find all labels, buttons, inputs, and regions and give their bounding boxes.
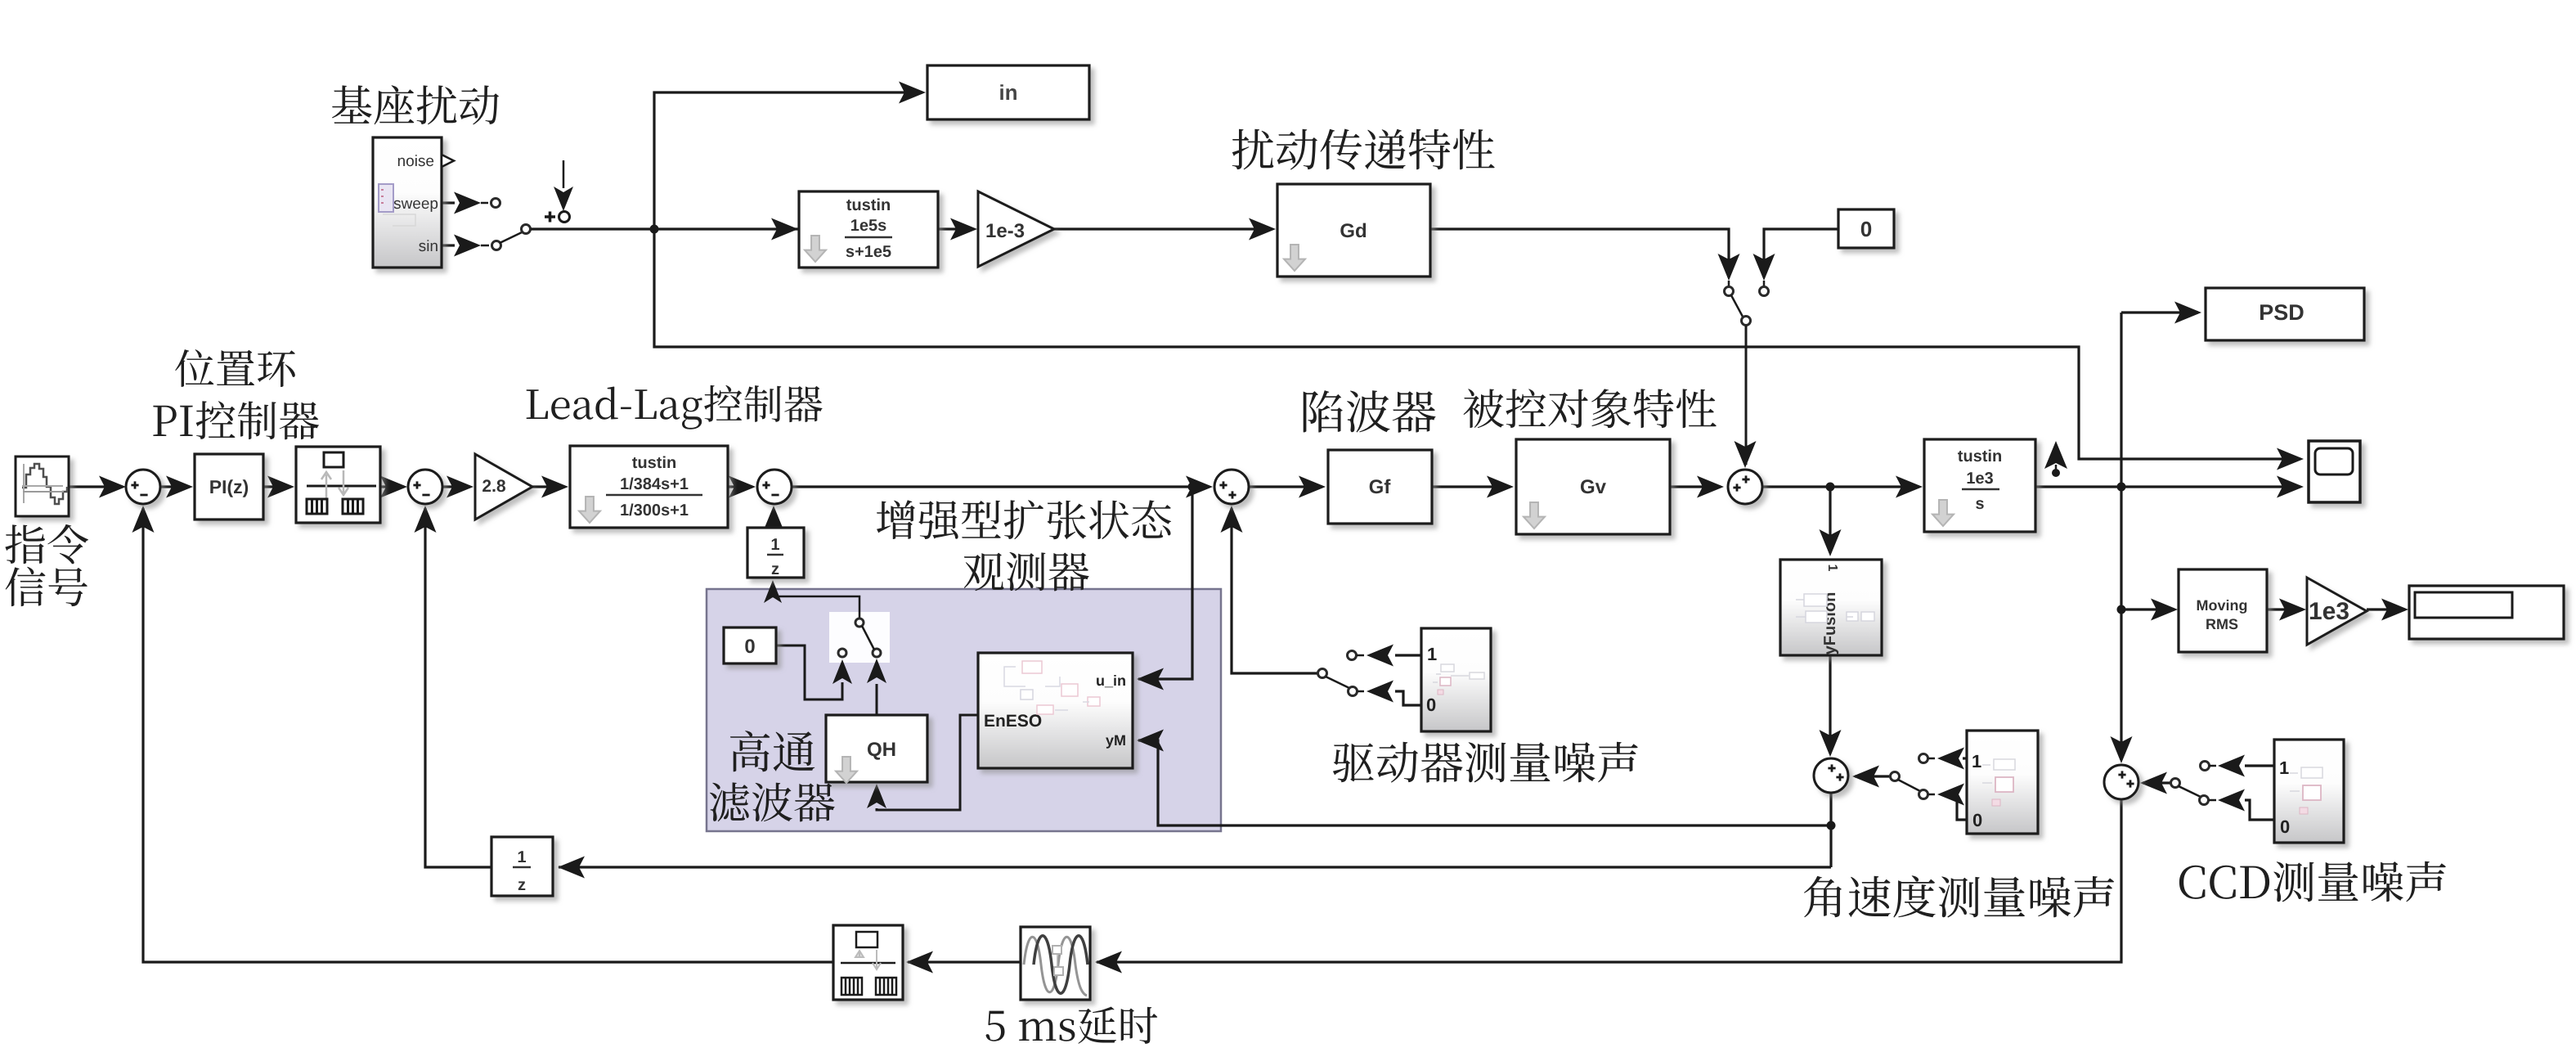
wire rate transition 2 to sum1 bottom: [143, 508, 833, 962]
label Lead-Lag controller: [527, 385, 823, 430]
stub arrow up from output into scope-top line: [2052, 469, 2060, 477]
wire driver noise port 1 to switch: [1395, 654, 1421, 656]
wire sum3 to sum4 with branch node to EnESO u_in: [792, 485, 1209, 488]
gain 2.8: [475, 454, 532, 520]
wire sum6 right input from ang switch: [1855, 775, 1890, 777]
observer switch circles and lever: [855, 618, 864, 627]
wire main top line to tustin 1e5s: [771, 218, 798, 241]
label 5ms delay: [986, 1007, 1158, 1044]
label command signal line1: [5, 524, 88, 564]
Moving RMS block: [2179, 569, 2267, 652]
unit delay 1/z (observer): [747, 528, 804, 578]
wire tustin 1e5s to gain 1e-3: [938, 227, 973, 230]
command signal source block: [16, 457, 69, 516]
in block: [927, 65, 1089, 119]
CCD sum S7: [2104, 765, 2138, 799]
ccd noise switch pole and lever: [2171, 779, 2180, 788]
wire PSD feed horizontal: [2121, 311, 2198, 313]
wire source sin port: [442, 244, 455, 246]
wire sum4 to Gf: [1249, 485, 1322, 488]
wire branch up to in block: [654, 92, 922, 229]
wire Gv to sum5: [1670, 485, 1721, 488]
wire sum6 to unit delay 1/z (bottom left): [559, 866, 1831, 868]
wire Lead-Lag to sum3: [728, 485, 752, 488]
notch filter Gf block: [1328, 450, 1432, 524]
Gd disturbance transfer block: [1277, 184, 1430, 277]
5ms transport delay block: [1021, 927, 1090, 1000]
wire Moving RMS to gain 1e3: [2267, 608, 2303, 610]
label enhanced ESO line1: [877, 500, 1171, 539]
external input port: down arrow, plus, circle: [563, 160, 565, 188]
wire PI(z) to rate transition: [263, 485, 291, 488]
EnESO subsystem block: [978, 653, 1133, 768]
wire ang noise port 1 to switch: [1963, 757, 1967, 759]
display block: [2409, 586, 2564, 639]
rate transition block 1: [296, 447, 380, 523]
label command signal line2: [6, 567, 88, 606]
label plant characteristic: [1464, 389, 1717, 428]
base disturbance source block: [373, 137, 442, 268]
node main top line at x800: [650, 225, 659, 234]
wire long feedback y424 to scope top: [654, 229, 2300, 459]
PI(z) controller block: [195, 454, 263, 520]
wire vertical x2594 down to CCD sum with node to Moving RMS: [2120, 489, 2122, 760]
driver noise switch pole and lever: [1318, 669, 1327, 678]
angular velocity noise source block: [1967, 731, 2038, 834]
wire 1/z (observer) up to sum3 bottom: [773, 509, 775, 528]
gain 1e3 (display): [2307, 578, 2367, 645]
wire gain 1e-3 to Gd: [1054, 227, 1272, 230]
switch patch inside observer: [829, 612, 890, 663]
wire Moving RMS feed: [2121, 608, 2174, 610]
wire CCD sum right input from ccd switch: [2143, 781, 2170, 784]
unit delay 1/z (outer feedback): [491, 837, 553, 896]
tustin 1e5s transfer fn block: [799, 191, 938, 268]
sum S2: [408, 470, 442, 504]
switch lever sin to common: [500, 232, 522, 243]
wire EnESO left port to QH bottom: [877, 715, 978, 810]
wire observer switch top circle to 1/z: [773, 586, 859, 618]
wire sum5 to tustin 1e3/s with node to yFusion: [1763, 485, 1919, 488]
label notch filter: [1304, 390, 1436, 433]
ang noise switch throws: [1919, 754, 1928, 763]
wire main row: source to sum1: [69, 485, 123, 488]
gain 1e-3: [978, 191, 1054, 267]
label position loop line1: [175, 349, 295, 387]
const 0 (observer): [724, 627, 776, 663]
plant Gv block: [1516, 439, 1670, 534]
switch circle sweep throw: [491, 199, 500, 208]
wire yM feedback from sum6 node to EnESO: [1138, 740, 1831, 825]
wire PSD feed vertical x2594: [2120, 313, 2122, 485]
tustin 1e3/s integrator block: [1924, 439, 2035, 532]
wire rate transition to sum2: [378, 485, 404, 488]
wire ccd noise port 1 to switch: [2245, 764, 2274, 767]
wire sum2 to gain 2.8: [442, 485, 470, 488]
label base disturbance: [332, 85, 499, 124]
wire yFusion to sum6: [1829, 655, 1831, 753]
PSD block: [2206, 288, 2364, 340]
wire QH to observer switch right throw: [876, 684, 878, 715]
switch circle sin throw: [492, 241, 501, 250]
label high pass line1: [730, 731, 815, 771]
label angular velocity measurement noise: [1804, 875, 2114, 917]
sum S6 (angular velocity): [1814, 758, 1848, 793]
ccd noise switch throws: [2201, 762, 2210, 771]
wire sum1 to PI(z): [160, 485, 190, 488]
label high pass line2: [710, 782, 835, 821]
sum S3: [757, 470, 792, 504]
switch common circle: [522, 225, 531, 234]
label disturbance transfer characteristic: [1232, 129, 1495, 170]
rate transition block 2: [833, 925, 903, 1000]
wire CCD sum down to 5ms delay row: [1097, 799, 2121, 962]
wire source sweep port: [442, 201, 455, 204]
const 0 (top): [1838, 209, 1894, 248]
wire Gd to disturbance switch left throw: [1430, 229, 1729, 277]
wire tustin 1e3/s to scope bottom input: [2035, 485, 2300, 488]
wire switch common to main top line: [531, 227, 799, 230]
scope block: [2309, 441, 2360, 502]
sum S1: [126, 470, 160, 504]
label enhanced ESO line2: [964, 552, 1089, 591]
wire gain 1e3 to display: [2367, 608, 2405, 610]
wire const 0 to observer switch left throw: [776, 645, 842, 699]
label CCD measurement noise: [2179, 861, 2446, 902]
yFusion subsystem block: [1780, 560, 1882, 655]
wire driver noise port 0 to switch: [1395, 691, 1421, 705]
wire Gf to Gv: [1432, 485, 1510, 488]
label position loop line2: [153, 401, 319, 439]
wire ang noise port 0 to switch: [1953, 794, 1967, 820]
ang noise switch pole and lever: [1891, 772, 1900, 781]
wire gain 2.8 to Lead-Lag: [532, 485, 564, 488]
sum S5: [1728, 470, 1762, 504]
CCD noise source block: [2274, 740, 2344, 843]
sum S4: [1214, 470, 1249, 504]
ESO observer region (purple): [707, 589, 1221, 831]
Lead-Lag transfer fn block: [570, 446, 728, 528]
wire sum4 bottom from driver-noise switch: [1232, 508, 1318, 673]
wire sum6 bottom branch node: [1829, 793, 1832, 867]
driver noise source block: [1421, 628, 1491, 731]
wire u_in branch down into EnESO: [1138, 487, 1192, 679]
wire ccd noise port 0 to switch: [2245, 800, 2274, 820]
wire 5ms sine delay to rate transition 2: [908, 960, 1021, 963]
QH high-pass block: [826, 715, 927, 782]
wire 1/z to sum2 bottom: [425, 508, 491, 867]
node on output line at x2594: [2117, 483, 2126, 492]
wire disturbance switch pole to sum5 top: [1745, 326, 1748, 465]
label driver measurement noise: [1333, 742, 1638, 783]
driver noise switch throws: [1348, 651, 1357, 660]
disturbance switch throw circles and pole: [1725, 287, 1734, 296]
wire const 0 to disturbance switch right throw: [1764, 229, 1838, 277]
wire main line node to yFusion: [1829, 487, 1831, 553]
